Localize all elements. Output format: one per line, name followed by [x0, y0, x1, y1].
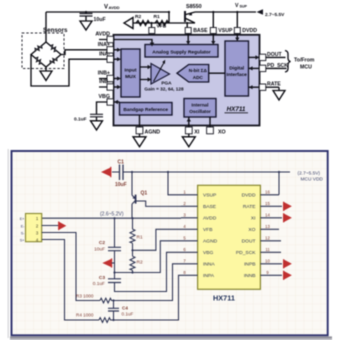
svg-text:VBG: VBG — [203, 250, 214, 256]
svg-text:VFB: VFB — [157, 24, 167, 30]
svg-text:RATE: RATE — [267, 82, 281, 88]
svg-text:XI: XI — [251, 216, 256, 222]
svg-text:R2: R2 — [137, 260, 143, 266]
svg-text:MCU: MCU — [300, 64, 312, 70]
svg-text:DOUT: DOUT — [267, 52, 283, 58]
svg-text:INA+: INA+ — [98, 42, 110, 48]
svg-text:VSUP: VSUP — [218, 28, 233, 34]
svg-text:ADC: ADC — [193, 75, 204, 80]
svg-text:Digital: Digital — [229, 66, 245, 72]
svg-text:INNB: INNB — [244, 273, 256, 279]
svg-text:INA-: INA- — [99, 51, 110, 57]
svg-text:0.1uF: 0.1uF — [122, 311, 134, 316]
svg-text:2.7~5.5V: 2.7~5.5V — [265, 12, 285, 18]
svg-text:0.1uF: 0.1uF — [93, 281, 105, 287]
svg-text:INB-: INB- — [99, 79, 110, 85]
svg-text:10uF: 10uF — [115, 182, 127, 188]
svg-text:MCU VDD: MCU VDD — [301, 176, 324, 182]
svg-text:RATE: RATE — [243, 204, 256, 210]
svg-text:SUP: SUP — [240, 5, 248, 9]
svg-text:(2.7~5.5V): (2.7~5.5V) — [298, 171, 321, 177]
svg-text:R1: R1 — [137, 235, 143, 241]
svg-text:DVDD: DVDD — [242, 28, 257, 34]
svg-text:PD_SCK: PD_SCK — [267, 63, 288, 69]
svg-text:PGA: PGA — [161, 80, 172, 85]
svg-text:AGND: AGND — [203, 239, 218, 245]
svg-text:10uF: 10uF — [94, 17, 106, 23]
svg-text:INNA: INNA — [203, 262, 215, 268]
svg-text:0.1uF: 0.1uF — [74, 117, 87, 123]
svg-text:Gain = 32, 64, 128: Gain = 32, 64, 128 — [144, 87, 184, 92]
svg-text:R2: R2 — [135, 14, 142, 20]
svg-text:INPB: INPB — [244, 262, 255, 268]
svg-text:To/From: To/From — [294, 58, 315, 64]
svg-text:HX711: HX711 — [227, 106, 246, 113]
svg-text:10: 10 — [265, 259, 270, 264]
svg-text:VFB: VFB — [203, 227, 213, 233]
svg-text:INB+: INB+ — [98, 71, 110, 77]
svg-text:HX711: HX711 — [213, 294, 235, 303]
svg-text:Oscillator: Oscillator — [189, 109, 211, 114]
svg-text:(2.6~5.2V): (2.6~5.2V) — [100, 212, 124, 218]
svg-text:10uF: 10uF — [94, 247, 105, 253]
svg-text:VSUP: VSUP — [203, 193, 216, 199]
svg-text:Q1: Q1 — [141, 191, 148, 197]
svg-text:AVDD: AVDD — [95, 32, 110, 38]
svg-text:Interface: Interface — [227, 72, 248, 78]
svg-text:S8550: S8550 — [186, 4, 202, 10]
svg-text:BASE: BASE — [193, 28, 208, 34]
svg-text:XI: XI — [194, 130, 200, 136]
svg-text:MUX: MUX — [125, 74, 137, 80]
svg-text:Input: Input — [125, 68, 137, 74]
svg-text:16: 16 — [265, 190, 270, 195]
svg-text:S+: S+ — [20, 238, 26, 242]
svg-text:V: V — [235, 3, 239, 9]
svg-text:INPA: INPA — [203, 273, 215, 279]
svg-text:DOUT: DOUT — [242, 239, 256, 245]
svg-text:Internal: Internal — [192, 102, 209, 107]
svg-text:R3 1000: R3 1000 — [76, 293, 94, 298]
svg-text:BASE: BASE — [203, 204, 217, 210]
svg-text:AVDD: AVDD — [109, 5, 120, 10]
svg-text:C2: C2 — [99, 240, 105, 246]
svg-text:E+: E+ — [20, 217, 26, 221]
svg-text:C1: C1 — [118, 159, 125, 165]
svg-text:R1: R1 — [154, 14, 161, 20]
svg-text:V: V — [104, 5, 108, 11]
svg-text:15: 15 — [265, 201, 270, 206]
svg-text:DVDD: DVDD — [242, 193, 256, 199]
svg-text:XO: XO — [248, 227, 255, 233]
svg-text:XO: XO — [218, 130, 226, 136]
svg-text:R4 1000: R4 1000 — [76, 313, 94, 318]
svg-text:C3: C3 — [99, 275, 105, 281]
svg-text:AVDD: AVDD — [203, 216, 217, 222]
svg-text:AGND: AGND — [145, 130, 161, 136]
svg-text:13: 13 — [265, 224, 270, 229]
svg-text:12: 12 — [265, 236, 270, 241]
svg-text:Analog Supply Regulator: Analog Supply Regulator — [152, 50, 211, 56]
svg-text:11: 11 — [265, 247, 270, 252]
svg-text:PD_SCK: PD_SCK — [236, 250, 256, 256]
svg-text:Bandgap Reference: Bandgap Reference — [123, 107, 168, 113]
svg-text:14: 14 — [265, 213, 270, 218]
svg-text:VBG: VBG — [99, 94, 110, 100]
svg-text:N-bit ΣΔ: N-bit ΣΔ — [189, 68, 208, 73]
svg-text:C4: C4 — [122, 305, 128, 310]
svg-text:Sensors: Sensors — [43, 27, 68, 34]
